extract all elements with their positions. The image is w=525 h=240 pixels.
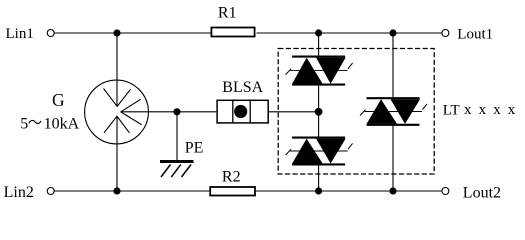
node junction bottom-G [113, 187, 120, 194]
wire PE down [176, 112, 178, 161]
wire left TVS column top [318, 33, 320, 55]
node junction bottom-left-TVS [315, 187, 322, 194]
TVS D3 left triangle [367, 99, 397, 124]
node Lout2 terminal [442, 188, 449, 195]
wire left TVS column bottom [318, 166, 320, 192]
svg-text:10kA: 10kA [44, 116, 80, 133]
TVS D3 top bar [367, 97, 420, 99]
svg-text:LT: LT [443, 103, 460, 119]
node junction top-G [113, 29, 120, 36]
svg-text:5: 5 [20, 116, 28, 133]
wire bottom rail left [54, 190, 209, 192]
TVS D2 right triangle [316, 139, 346, 164]
ground PE bar [160, 160, 194, 163]
svg-text:Lout1: Lout1 [457, 27, 493, 43]
wire left TVS column middle [318, 86, 320, 137]
TVS D3 bottom bar [367, 124, 420, 126]
svg-text:x: x [464, 102, 472, 118]
ground PE slash 3 [182, 165, 192, 178]
node Lout1 terminal [442, 30, 449, 37]
resistor R1 [211, 28, 254, 37]
wire top rail left [54, 32, 211, 34]
ground PE slash 1 [161, 165, 171, 178]
svg-text:BLSA: BLSA [222, 79, 263, 96]
dashed module box [278, 49, 434, 175]
TVS D3 right triangle [391, 99, 421, 124]
svg-text:x: x [493, 102, 501, 118]
fuse BLSA divider 1 [232, 100, 234, 124]
node junction TVS mid [315, 108, 323, 116]
wire G column upper [116, 33, 118, 106]
TVS D2 bottom bar [292, 163, 345, 165]
TVS D1 top bar [292, 56, 345, 58]
svg-text:x: x [479, 102, 487, 118]
svg-text:G: G [52, 90, 65, 110]
wire top rail right [257, 32, 443, 34]
svg-text:Lin1: Lin1 [6, 26, 34, 42]
node junction PE [173, 108, 180, 115]
svg-text:Lin2: Lin2 [4, 184, 34, 201]
TVS D3 middle line [360, 104, 427, 116]
G arrow barb lower [121, 112, 142, 125]
node junction bottom-right-TVS [389, 187, 396, 194]
fuse BLSA dot [234, 105, 247, 118]
TVS D2 middle line [286, 143, 353, 155]
gas discharge tube G circle [85, 80, 149, 144]
wire right TVS column bottom [392, 126, 394, 191]
wire right TVS column top [392, 33, 394, 97]
TVS D1 middle line [286, 63, 353, 75]
wire G to BLSA [121, 111, 217, 113]
resistor R2 [210, 187, 255, 196]
TVS D1 left triangle [292, 58, 322, 84]
node Lin1 terminal [47, 30, 54, 37]
svg-text:x: x [508, 102, 516, 118]
node junction top-left-TVS [315, 29, 322, 36]
G arrow barb upper [121, 99, 141, 112]
wire bottom rail right [256, 190, 442, 192]
G arrow upper V [104, 89, 131, 107]
TVS D1 right triangle [316, 58, 346, 84]
TVS D2 left triangle [292, 139, 322, 164]
node Lin2 terminal [47, 188, 54, 195]
TVS D2 top bar [292, 137, 345, 139]
wire G column lower [116, 117, 118, 192]
node junction top-right-TVS [389, 29, 396, 36]
ground PE slash 2 [171, 165, 181, 178]
TVS D1 bottom bar [292, 84, 345, 86]
svg-text:R1: R1 [218, 5, 237, 22]
svg-text:PE: PE [185, 140, 204, 157]
svg-text:Lout2: Lout2 [463, 184, 501, 201]
wire BLSA to TVS mid node [269, 111, 319, 113]
G arrow lower [104, 116, 129, 133]
fuse BLSA box [217, 100, 268, 123]
fuse BLSA divider 2 [249, 100, 251, 124]
svg-text:R2: R2 [222, 168, 241, 185]
